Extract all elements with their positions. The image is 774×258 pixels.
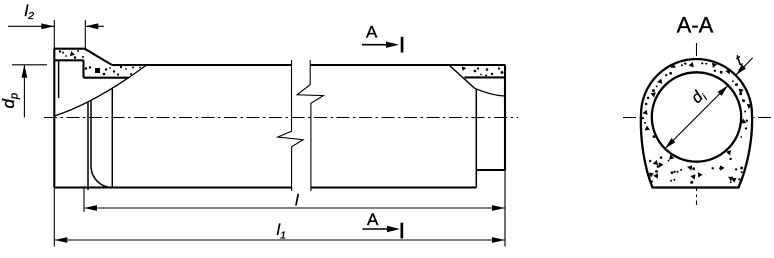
bell seat edge B — [87, 103, 89, 191]
concrete stipple section ring and base — [653, 135, 656, 138]
extension of l dimension (left) — [83, 188, 85, 212]
break line left — [278, 60, 303, 191]
bell interior edge C with fillet — [91, 101, 112, 188]
barrel top line left segment — [112, 64, 292, 66]
section inner circle (bore) — [652, 72, 741, 161]
break line right — [297, 60, 323, 191]
spigot bore line — [465, 76, 506, 78]
socket chamfer — [85, 49, 112, 65]
dimension t wall thickness leader — [736, 58, 753, 76]
section centerline vertical — [696, 43, 698, 205]
dimension di across bore — [665, 85, 728, 148]
concrete stipple spigot wall — [462, 66, 466, 71]
bore top line — [84, 77, 129, 79]
svg-text:A: A — [367, 210, 379, 229]
end face — [504, 65, 506, 170]
section outer contour — [641, 59, 752, 188]
bottom outline right segment — [311, 186, 477, 188]
svg-text:l: l — [295, 193, 299, 210]
spigot break curve — [475, 88, 505, 96]
svg-text:A-A: A-A — [677, 12, 714, 37]
broken-out section curve at socket — [54, 65, 146, 116]
dimension l2 — [8, 25, 54, 27]
bottom outline left segment — [54, 186, 291, 188]
extension line for l2 right — [84, 20, 86, 49]
concrete stipple socket wall — [70, 51, 75, 56]
bell interior edge D — [111, 89, 113, 188]
centerline main view — [44, 117, 518, 119]
section centerline horizontal — [623, 117, 771, 119]
dimension l — [84, 207, 505, 209]
barrel top line right segment — [311, 64, 506, 66]
base end edge at spigot — [475, 89, 477, 188]
socket inner top — [54, 59, 83, 61]
bell mouth inner edge — [58, 60, 60, 98]
socket outer top — [54, 48, 84, 50]
dimension dp — [12, 64, 47, 66]
svg-text:A: A — [366, 23, 378, 42]
socket step — [82, 60, 84, 77]
extension of l and l1 (right) — [504, 170, 506, 247]
spigot bottom step — [476, 169, 505, 171]
socket left face with extension lines — [53, 20, 55, 49]
dimension l1 — [54, 239, 505, 241]
spigot break diagonal — [449, 65, 475, 88]
